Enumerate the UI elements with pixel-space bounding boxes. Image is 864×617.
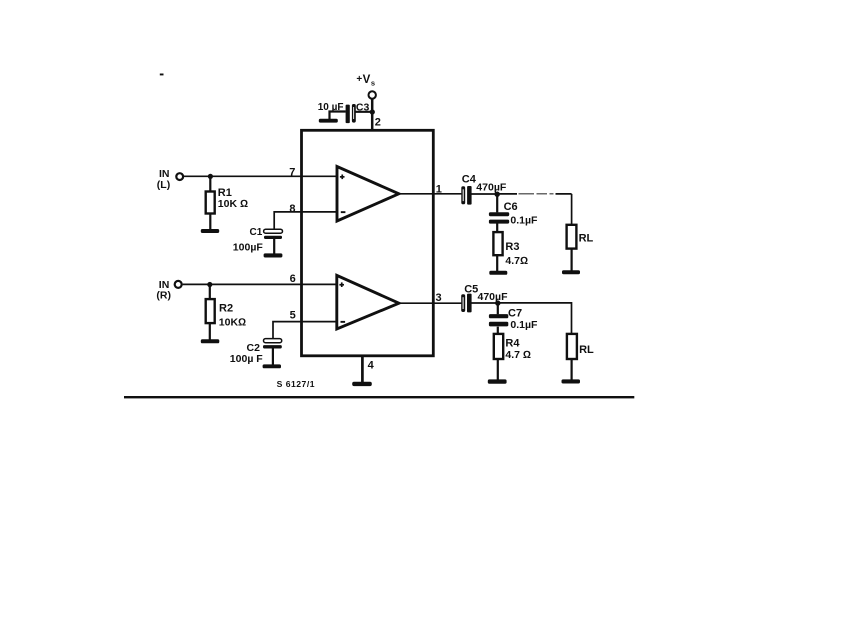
svg-text:C1: C1: [250, 227, 263, 238]
svg-text:V: V: [363, 74, 371, 86]
wire pin 5 to C2 corner: [273, 322, 337, 339]
wire node to R1: [209, 176, 211, 191]
svg-text:R2: R2: [219, 303, 233, 315]
wire node to RL (partly faded): [497, 193, 517, 195]
resistor R4: [494, 334, 531, 361]
svg-text:s: s: [371, 79, 375, 88]
ground (R4): [488, 379, 507, 383]
svg-text:RL: RL: [579, 344, 594, 356]
ground (C1): [264, 253, 283, 257]
node R input: [207, 282, 212, 287]
resistor R3: [493, 232, 528, 267]
node out R: [495, 300, 500, 305]
IC box U1: [302, 130, 434, 355]
svg-text:RL: RL: [579, 232, 594, 244]
resistor RL (top): [567, 225, 594, 249]
ground (R3): [489, 271, 507, 275]
input terminal IN (L): [157, 168, 183, 191]
supply terminal +Vs: [356, 74, 376, 99]
wire R1 to ground: [209, 214, 211, 231]
wire pin 1 to C4: [399, 193, 462, 195]
ground (R1): [201, 229, 219, 233]
svg-text:R4: R4: [505, 338, 520, 350]
svg-text:(R): (R): [156, 290, 171, 302]
wire C7 to R4: [497, 327, 499, 334]
svg-text:6: 6: [290, 273, 296, 285]
svg-text:4: 4: [368, 359, 375, 371]
svg-text:470µF: 470µF: [478, 291, 509, 303]
wire R4 to ground: [497, 359, 499, 380]
svg-text:C6: C6: [504, 201, 518, 213]
svg-text:0.1µF: 0.1µF: [510, 319, 538, 331]
wire pin 4: [361, 356, 364, 382]
wire C2 to ground: [272, 348, 274, 365]
svg-text:S 6127/1: S 6127/1: [277, 379, 315, 389]
svg-text:100µF: 100µF: [233, 241, 264, 253]
page rule: [124, 396, 634, 398]
svg-text:R3: R3: [505, 241, 519, 253]
wire C4 to node: [472, 193, 498, 195]
svg-text:10KΩ: 10KΩ: [219, 317, 246, 329]
wire pin 3 to C5: [399, 302, 462, 304]
svg-text:1: 1: [436, 183, 442, 195]
ground (C2): [263, 364, 281, 368]
node out L: [495, 192, 500, 197]
wire C5 to node: [472, 302, 498, 304]
svg-text:C7: C7: [508, 307, 522, 319]
wire pin 8 to C1 corner: [274, 212, 337, 230]
svg-text:5: 5: [290, 309, 296, 321]
svg-text:4.7Ω: 4.7Ω: [505, 255, 528, 267]
svg-text:10K Ω: 10K Ω: [218, 198, 248, 210]
svg-text:2: 2: [375, 117, 381, 129]
svg-text:(L): (L): [157, 179, 170, 191]
op-amp A2: [337, 275, 399, 329]
ground (RL top): [562, 270, 580, 274]
wire R2 to ground: [209, 323, 211, 340]
wire node to RL bottom: [498, 303, 572, 334]
capacitor C4 470uF: [461, 174, 507, 205]
svg-text:C4: C4: [462, 174, 477, 186]
wire node to C7: [497, 303, 499, 314]
svg-text:7: 7: [289, 167, 295, 179]
wire C3 to supply node: [355, 111, 371, 113]
op-amp A1: [337, 167, 399, 222]
wire R3 to ground: [496, 255, 498, 271]
svg-text:0.1µF: 0.1µF: [510, 214, 538, 226]
capacitor C2 100uF: [230, 339, 282, 365]
svg-text:C5: C5: [464, 283, 478, 295]
ground (pin 4): [352, 382, 372, 386]
ground (R2): [201, 339, 220, 343]
wire RL to ground: [570, 249, 572, 271]
input terminal IN (R): [156, 279, 181, 302]
capacitor C1 100uF: [233, 227, 283, 254]
wire supply to pin 2: [371, 99, 374, 130]
wire input R to pin 6: [183, 283, 337, 285]
wire C6 to R3: [496, 224, 498, 233]
wire RL bottom to ground: [570, 359, 572, 380]
ground (C3): [319, 119, 338, 123]
node supply: [370, 109, 375, 114]
wire input L to pin 7: [184, 175, 337, 177]
ground (RL bottom): [562, 379, 581, 383]
capacitor C6 0.1uF: [489, 201, 538, 226]
svg-text:470µF: 470µF: [476, 182, 507, 194]
resistor R2: [206, 299, 246, 329]
wire node to C6: [496, 194, 498, 212]
svg-text:+: +: [356, 74, 362, 85]
svg-text:100µ F: 100µ F: [230, 353, 263, 365]
wire C1 to ground: [273, 239, 275, 255]
svg-text:3: 3: [436, 292, 442, 304]
capacitor C5 470uF: [461, 283, 508, 312]
wire C3 to ground: [330, 112, 346, 120]
capacitor C3 10uF: [318, 101, 370, 123]
stray mark: [160, 74, 164, 76]
resistor R1: [206, 187, 248, 213]
wire node to R2: [209, 285, 211, 300]
resistor RL (bottom): [567, 334, 594, 359]
node L input: [208, 174, 213, 179]
svg-text:4.7 Ω: 4.7 Ω: [505, 349, 531, 361]
svg-text:8: 8: [289, 203, 295, 215]
capacitor C7 0.1uF: [489, 307, 538, 331]
